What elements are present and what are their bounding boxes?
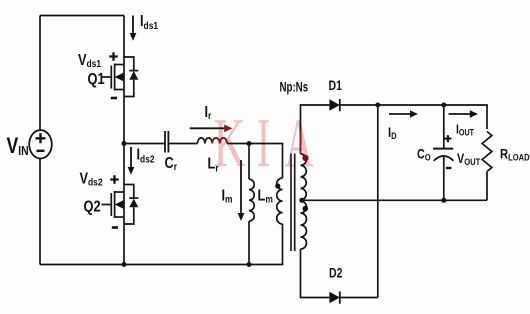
svg-text:D1: D1 (329, 78, 343, 94)
wire secondary bottom to D2 (301, 249, 330, 298)
wire Lm branch bottom (248, 221, 250, 264)
wire left vertical (VIN top lead) (39, 16, 41, 131)
current arrow ID (389, 113, 411, 115)
capacitor Cr (165, 131, 168, 153)
svg-text:A: A (285, 106, 314, 183)
wire Cr to Lr (168, 143, 197, 145)
wire Lr to primary top (227, 144, 282, 179)
node Lr/Lm junction (247, 141, 252, 146)
wire Q2 drain-source vertical (123, 144, 125, 265)
minus mark Vds2 (112, 226, 118, 229)
inductor Lm (249, 179, 254, 221)
current arrow Ir (190, 127, 225, 129)
node Lm bottom on bottom rail (247, 262, 252, 267)
minus mark Co (446, 167, 452, 169)
svg-text:Np:Ns: Np:Ns (280, 80, 309, 95)
current arrow Iout (449, 113, 471, 115)
wire top rail (40, 15, 124, 17)
current arrow Im (240, 160, 242, 213)
wire D2 cathode vertical (377, 105, 379, 298)
node D1/D2 cathode junction (375, 103, 380, 108)
transistor Q1 (102, 57, 139, 97)
source VIN (29, 130, 52, 158)
wire D1 cathode to output top (340, 105, 487, 129)
wire VIN bottom lead (39, 158, 41, 264)
wire secondary top to D1 (301, 105, 330, 154)
node center tap (299, 198, 304, 203)
plus mark Vds2 (110, 175, 118, 183)
wire midpoint node to Cr (124, 143, 165, 145)
diode D1 (329, 99, 339, 111)
node Co top (441, 103, 446, 108)
transformer primary winding (277, 178, 283, 224)
wire output bottom rail (center tap to RLOAD bottom) (301, 199, 488, 201)
node Q2 source on bottom rail (122, 262, 127, 267)
plus mark Co (444, 135, 451, 142)
minus mark Vds1 (111, 97, 117, 100)
wire bottom rail to transformer primary bottom (40, 224, 283, 265)
diode D2 (329, 292, 339, 304)
wire tint under watermark (300, 129, 302, 154)
current arrow Ids1 (132, 16, 134, 34)
wire D2 cathode to riser (340, 297, 378, 299)
secondary lower phase dot (303, 206, 309, 212)
primary phase dot (275, 183, 280, 188)
transformer secondary lower winding (301, 201, 307, 249)
transistor Q2 (102, 185, 139, 225)
node midpoint half-bridge (122, 141, 127, 146)
wire Lm branch top (248, 144, 250, 180)
plus mark Vds1 (109, 52, 117, 60)
svg-text:D2: D2 (329, 265, 343, 281)
node Co bottom (441, 198, 446, 203)
secondary phase dot (red, top) (302, 155, 308, 161)
svg-text:Q2: Q2 (84, 198, 101, 216)
capacitor Co (443, 105, 445, 149)
transformer secondary upper winding (301, 154, 307, 200)
resistor RLOAD (482, 132, 492, 201)
inductor Lr (198, 138, 228, 144)
transformer core (291, 154, 295, 252)
svg-text:Q1: Q1 (88, 71, 105, 89)
current arrow Ids2 (130, 147, 132, 167)
wire Q1 drain-source vertical (123, 16, 125, 144)
